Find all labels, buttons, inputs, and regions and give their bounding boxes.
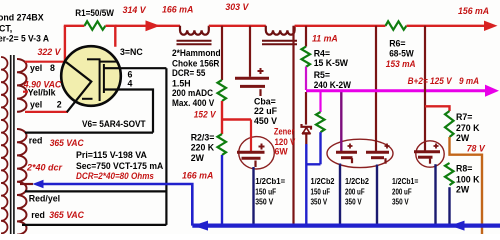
wire: Cb1 top lead from 152V node	[250, 120, 252, 152]
svg-text:166 mA: 166 mA	[182, 171, 213, 181]
svg-text:red: red	[29, 135, 43, 145]
svg-text:er-2= 5 V-3 A: er-2= 5 V-3 A	[0, 33, 50, 43]
capacitor 1/2Cb2 (A) plates	[336, 144, 357, 164]
svg-text:2W: 2W	[456, 133, 470, 143]
wire: top bus segment left (322V to R1)	[64, 25, 85, 27]
wire: bus between choke halves 303V	[209, 25, 266, 27]
wire: zener anode down	[305, 134, 307, 144]
blue ground return line to center tap	[42, 184, 192, 226]
svg-text:R1=50/5W: R1=50/5W	[75, 8, 114, 18]
svg-text:303 V: 303 V	[225, 2, 249, 12]
wire: R1 output 314V to tube pin 3 stub	[106, 26, 116, 47]
svg-text:yel: yel	[30, 63, 42, 73]
svg-text:2W: 2W	[191, 153, 205, 163]
arrowhead 156mA at right edge	[484, 21, 498, 31]
svg-text:78 V: 78 V	[467, 143, 486, 153]
resistor R4 15K 5W	[302, 47, 311, 67]
choke L1 (first half, Hammond 156R)	[177, 26, 212, 45]
svg-text:15 K-5W: 15 K-5W	[314, 58, 349, 68]
svg-text:Cba=: Cba=	[254, 97, 276, 107]
wire: R5 stub from B+2	[319, 92, 321, 112]
capacitor Cba 22uF plates	[235, 68, 269, 96]
wire: cap B top lead from 303V bus	[375, 26, 377, 152]
tube filament V	[66, 62, 91, 112]
svg-text:322 V: 322 V	[38, 47, 62, 57]
resistor R6 68 ohm 5W (zigzag on bus)	[386, 21, 407, 30]
transformer T1 HV secondary winding	[17, 129, 27, 235]
resistor R3 (220K lower half)	[218, 134, 227, 155]
wire: cap 4 bottom lead to ground	[434, 164, 436, 223]
svg-text:2*Hammond: 2*Hammond	[172, 48, 221, 58]
capacitor 1/2Cb2 (B) plates	[366, 144, 390, 164]
svg-text:270 K: 270 K	[456, 123, 480, 133]
svg-text:1.5H: 1.5H	[172, 78, 191, 88]
svg-text:365 VAC: 365 VAC	[49, 210, 84, 220]
wire: top red transformer lead to pin 4	[25, 132, 153, 134]
svg-text:153 mA: 153 mA	[386, 59, 416, 69]
svg-text:R6=: R6=	[389, 38, 405, 48]
wire: R3 bottom to ground bus	[221, 155, 223, 224]
svg-text:2W: 2W	[456, 184, 470, 194]
svg-text:350 V: 350 V	[255, 198, 274, 207]
resistor R8 100K 2W	[445, 163, 454, 185]
wire: 78V orange tap	[450, 137, 483, 234]
wire: R8 bottom to ground bus	[448, 187, 450, 223]
wire: top bus after choke to R6	[295, 25, 386, 27]
svg-text:DCR= 55: DCR= 55	[172, 68, 205, 78]
svg-text:166 mA: 166 mA	[162, 5, 193, 15]
svg-text:CT,: CT,	[0, 23, 12, 33]
wire: top bus after R6 to right edge	[407, 25, 487, 27]
svg-text:150 uF: 150 uF	[255, 187, 276, 196]
svg-text:200 mADC: 200 mADC	[172, 88, 214, 98]
wire: cap A bottom lead to ground	[339, 164, 341, 224]
magenta B+2 bus 125V	[306, 89, 486, 92]
svg-text:DCR=2*40=80 Ohms: DCR=2*40=80 Ohms	[76, 171, 154, 181]
capacitor can ellipse 3 (1/2Cb1 200uF)	[416, 141, 444, 167]
resistor R2 (220K upper half)	[218, 80, 227, 101]
svg-text:Yel/blk: Yel/blk	[28, 87, 56, 97]
svg-text:152 V: 152 V	[194, 110, 217, 120]
resistor R1 50 ohm 5W (zigzag)	[85, 21, 106, 30]
wire: zener ground path (blue corner)	[306, 144, 320, 224]
svg-text:Sec=750 VCT-175 mA: Sec=750 VCT-175 mA	[76, 161, 164, 171]
svg-text:9 mA: 9 mA	[459, 76, 479, 86]
wire: R4 bottom to B+2 node (magenta)	[305, 67, 307, 90]
wire: pin 6 plate lead (black)	[104, 67, 166, 69]
arrowhead ground return at center tap	[32, 180, 43, 188]
svg-text:3=NC: 3=NC	[120, 47, 143, 57]
arrowhead B+2 at right edge	[485, 85, 499, 97]
svg-text:100 K: 100 K	[456, 174, 480, 184]
capacitor 1/2Cb1 200uF plates	[414, 144, 440, 164]
svg-text:6W: 6W	[275, 147, 289, 157]
svg-text:R7=: R7=	[456, 112, 472, 122]
svg-text:V6= 5AR4-SOVT: V6= 5AR4-SOVT	[82, 119, 146, 129]
wire: bottom red transformer lead	[22, 224, 166, 226]
svg-text:Choke 156R: Choke 156R	[172, 58, 220, 68]
svg-text:2: 2	[57, 100, 62, 110]
wire: maroon full drop after choke2	[292, 26, 294, 224]
wire: Cb1 bottom lead to ground	[252, 167, 254, 224]
wire: 322V riser from pin 8 up to R1	[64, 26, 66, 62]
zener diode 120V 6W	[302, 124, 312, 133]
svg-text:Max. 400 V: Max. 400 V	[172, 98, 214, 108]
svg-text:8: 8	[50, 63, 55, 73]
capacitor can ellipse 1 (1/2Cb1)	[239, 137, 275, 169]
svg-text:350 V: 350 V	[311, 198, 328, 207]
svg-text:R8=: R8=	[456, 163, 472, 173]
wire: 314V bus toward choke with arrow	[115, 25, 180, 27]
wire: cap B bottom lead to ground	[376, 165, 378, 224]
svg-text:1/2Cb2: 1/2Cb2	[345, 177, 370, 186]
wire: 152V node segment	[221, 101, 223, 134]
svg-text:4: 4	[128, 78, 133, 88]
svg-text:11 mA: 11 mA	[312, 33, 338, 43]
blue ground bus	[192, 224, 500, 228]
svg-text:2*40 dcr: 2*40 dcr	[26, 162, 63, 172]
svg-text:R5=: R5=	[314, 70, 330, 80]
wire: pin 4 plate lead (black)	[104, 90, 153, 133]
wire: yel pin8 lead (red)	[25, 61, 66, 63]
wire: maroon drop to R2 bleeder	[221, 26, 223, 80]
resistor R7 270K 2W	[445, 111, 454, 137]
svg-text:156 mA: 156 mA	[458, 6, 489, 16]
wire: Yel/blk center tap stub	[23, 91, 28, 93]
arrowhead ground bus left	[193, 221, 208, 231]
wire: B+2 to zener	[305, 92, 307, 125]
svg-text:1/2Cb2: 1/2Cb2	[311, 177, 336, 186]
wire: pin 6 drop to bottom red lead	[165, 68, 167, 225]
wire: R4 feed from bus	[305, 26, 307, 47]
svg-text:R4=: R4=	[314, 49, 330, 59]
svg-text:1/2Cb1=: 1/2Cb1=	[392, 177, 419, 186]
svg-text:Pri=115 V-198 VA: Pri=115 V-198 VA	[76, 150, 148, 160]
svg-text:1/2Cb1=: 1/2Cb1=	[255, 177, 285, 186]
svg-text:Red/yel: Red/yel	[29, 194, 60, 204]
svg-text:ond 274BX: ond 274BX	[0, 12, 44, 22]
svg-text:350 V: 350 V	[392, 198, 409, 207]
tube V6 5AR4 envelope	[61, 46, 121, 106]
transformer T1 5V filament secondary winding	[17, 59, 27, 112]
wire: yel pin2 lead (red)	[25, 111, 68, 113]
transformer T1 primary winding (left, cut off)	[1, 57, 8, 233]
svg-text:yel: yel	[30, 99, 42, 109]
arrowhead 166mA on top bus	[146, 20, 161, 31]
wire: 152V node line to Cba	[222, 118, 251, 120]
svg-text:22 uF: 22 uF	[254, 106, 278, 116]
wire: center tap stub to ground arrow	[20, 183, 33, 185]
choke L2 (second half)	[262, 26, 297, 45]
svg-text:314 V: 314 V	[123, 5, 147, 15]
svg-text:Zener: Zener	[274, 127, 295, 137]
svg-text:150 uF: 150 uF	[311, 187, 331, 196]
svg-text:365 VAC: 365 VAC	[50, 138, 85, 148]
svg-text:68-5W: 68-5W	[389, 48, 414, 58]
wire: R5 bottom to blue corner	[319, 132, 321, 164]
svg-text:120 V: 120 V	[275, 137, 296, 147]
svg-text:200 uF: 200 uF	[392, 187, 412, 196]
svg-text:B+2= 125 V: B+2= 125 V	[408, 76, 453, 86]
tube plate bars	[82, 59, 117, 101]
arrowhead ground bus right	[450, 221, 465, 231]
wire: cap A top lead from B+2 (purple)	[340, 92, 342, 151]
svg-text:220 K: 220 K	[191, 143, 215, 153]
wire: Red/yel center tap lead	[25, 190, 166, 192]
capacitor 1/2Cb1 150uF plates	[237, 144, 265, 168]
svg-text:240 K-2W: 240 K-2W	[314, 80, 352, 90]
svg-text:red: red	[31, 210, 45, 220]
resistor R5 240K 2W	[316, 112, 325, 132]
svg-text:R2/3=: R2/3=	[191, 133, 215, 143]
svg-text:350 V: 350 V	[345, 198, 362, 207]
svg-text:450 V: 450 V	[254, 116, 277, 126]
wire: tee from R6 output to R7	[425, 106, 450, 111]
transformer T1 core	[11, 55, 14, 234]
wire: Cba top lead from 303V bus	[249, 26, 251, 77]
svg-text:200 uF: 200 uF	[345, 187, 365, 196]
wire: R6 output drop to cap 4	[424, 26, 426, 151]
capacitor can ellipse 2 (Cb2 both halves)	[327, 139, 393, 167]
